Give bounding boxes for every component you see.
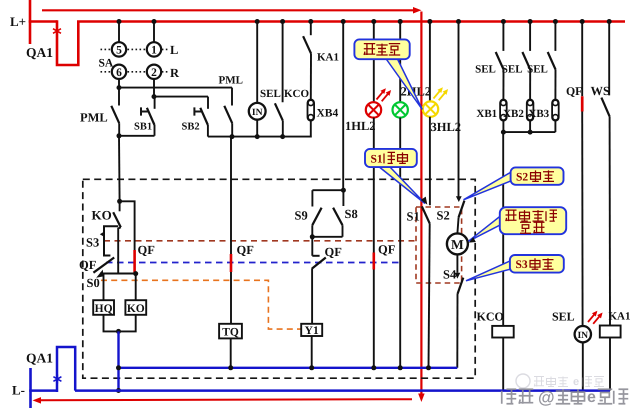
node junction blue rail 2HL2 (398, 365, 403, 370)
svg-text:M: M (451, 237, 464, 252)
selector SA contact 2 (147, 65, 161, 79)
svg-text:L: L (170, 43, 178, 57)
svg-text:XB1: XB1 (476, 108, 497, 120)
node junction coils bottom (116, 329, 121, 334)
wire KA1 to bottom rail (609, 338, 611, 391)
svg-text:SEL: SEL (260, 88, 281, 100)
svg-text:PML: PML (219, 75, 243, 87)
contact SEL (NO, XB2 column) (529, 22, 531, 51)
svg-text:SA: SA (99, 58, 114, 70)
linkage QF dashed line (blue) (106, 262, 400, 264)
svg-text:XB4: XB4 (317, 108, 339, 120)
wire XB bottom rail (503, 131, 555, 133)
wire KO bottom to join (119, 315, 136, 332)
node bus junction IN column (255, 19, 260, 24)
node L+ terminal (29, 0, 32, 44)
wire lead to SA contact 5 (118, 22, 120, 43)
svg-text:IN: IN (577, 330, 588, 341)
callout S1 closed (S1 jie tong) (378, 166, 425, 204)
callout S3 open (S3 duan kai) (466, 261, 511, 281)
watermark ghost (516, 374, 604, 388)
svg-text:XB2: XB2 (503, 108, 524, 120)
dashed enclosure box (control unit) (83, 179, 475, 378)
svg-text:Y1: Y1 (305, 325, 319, 337)
wire HQ coil lead (103, 274, 105, 301)
wire lead below SA-6 (118, 79, 120, 88)
svg-text:SEL: SEL (527, 64, 548, 76)
node bus junction XB3 column (553, 19, 558, 24)
svg-text:PML: PML (80, 111, 108, 125)
node junction S9/S8 bottom (310, 234, 315, 239)
wire 2HL2 column lower (399, 118, 401, 368)
watermark text (502, 388, 629, 407)
node bus junction QF column (580, 19, 585, 24)
node bus junction SEL/KCO contact column (280, 19, 285, 24)
selector SA dotted link row2 (101, 71, 169, 73)
svg-text:KCO: KCO (477, 310, 504, 324)
svg-text:S1: S1 (407, 210, 420, 224)
contact PML right (NO) (231, 88, 233, 106)
node bus junction S2 column (456, 19, 461, 24)
wire L- rail left segment (29, 389, 57, 392)
node junction KO-coil top (133, 271, 138, 276)
connector XB4 (308, 100, 315, 121)
svg-text:KO: KO (92, 208, 112, 223)
node junction IN bottom (255, 134, 260, 139)
contact KO (NO) (119, 201, 121, 211)
node bus junction XB1 column (501, 19, 506, 24)
wire blue rail (coil return) (119, 367, 458, 369)
wire QF closed segment (red) on TQ column (230, 254, 233, 272)
wire QF column upper (581, 22, 583, 97)
svg-text:S0: S0 (87, 276, 100, 290)
svg-text:XB3: XB3 (528, 108, 549, 120)
node bus junction SA-5 (117, 19, 122, 24)
svg-text:e: e (573, 376, 579, 388)
wire SB2/PML-right bottom rail (208, 136, 232, 138)
wire rail from SA-6 to PML right contact (119, 87, 232, 89)
contact KCO (NO) (282, 22, 284, 103)
wire L- rail main (75, 389, 610, 392)
wire IN column lower (256, 119, 258, 137)
svg-text:HQ: HQ (95, 303, 113, 315)
node junction on L- rail (116, 388, 121, 393)
wire 2HL2 column upper (399, 22, 401, 103)
wire parallel-group bottom rail (232, 136, 312, 138)
svg-text:WS: WS (591, 84, 611, 98)
contact S1 (NO) (422, 206, 430, 223)
wire S8 column from bus (342, 22, 344, 191)
svg-text:S8: S8 (345, 207, 358, 221)
connector XB3 (552, 100, 559, 121)
node junction top of KO chain (117, 199, 122, 204)
contact SEL (NO, XB1 column) (502, 22, 504, 51)
wire QF branch (to KO coil) (120, 201, 135, 250)
svg-text:1HL2: 1HL2 (345, 119, 376, 133)
wire lead to SA contact 1 (153, 22, 155, 43)
svg-text:S1: S1 (371, 153, 383, 165)
svg-text:QF: QF (138, 243, 156, 257)
indicator IN (bottom sensor, lit) (575, 326, 591, 342)
wire QF closed segment (red, right column) (581, 96, 584, 111)
node bus junction S8 column (341, 19, 346, 24)
svg-text:2: 2 (151, 67, 157, 79)
svg-text:QF: QF (237, 243, 255, 257)
svg-text:QF: QF (79, 258, 97, 272)
linkage box S1-S2-S4 dashed (brown) (416, 207, 462, 283)
contact QF (NC, Y1 column) (311, 237, 313, 256)
breaker QA1 (bottom, open detour) (57, 347, 75, 392)
coil TQ (219, 324, 242, 339)
switch S2 actuator arrow (456, 196, 462, 202)
wire XB4 to rail (310, 121, 312, 138)
node bus junction 2HL2 (398, 19, 403, 24)
arrow to motor M (469, 237, 476, 242)
svg-text:SB1: SB1 (134, 122, 152, 133)
arrow to contact S1 (421, 197, 428, 205)
switch S3 (closed, with actuator arrow) (104, 226, 118, 255)
linkage S3 dashed line (brown) (104, 240, 416, 242)
svg-text:IN: IN (252, 107, 263, 118)
pushbutton SB1 (NO) (154, 97, 156, 109)
motor M (energy-storage motor) (447, 233, 468, 254)
node bus junction XB2 column (528, 19, 533, 24)
connector XB1 (500, 100, 507, 121)
wire S9/S8 bottom rail (312, 236, 342, 238)
wire S9 branch rail (312, 189, 343, 191)
indicator IN (sensor coil) (249, 103, 266, 120)
svg-text:e: e (587, 389, 596, 406)
wire red top flow line with right arrow (42, 9, 416, 11)
wire S2 column from bus (458, 22, 460, 198)
node L- terminal (29, 368, 32, 408)
contact S2 (NO mirrored, open) (459, 201, 465, 218)
contact S4 (NO mirrored, open) (458, 278, 464, 294)
svg-text:KA1: KA1 (317, 51, 339, 63)
lamp 3HL2 (yellow, lit) (423, 101, 438, 116)
node bus junction KA1 contact column (308, 19, 313, 24)
svg-text:KO: KO (127, 303, 145, 315)
wire column down into box from SB1 junction (118, 136, 121, 202)
svg-text:S2: S2 (437, 209, 450, 223)
wire TQ column (230, 137, 232, 324)
node bus junction 1HL2 (371, 19, 376, 24)
node junction SB1-PML bottom (117, 133, 122, 138)
breaker QA1 (top, open detour) (57, 20, 78, 65)
wire KCO column (502, 132, 504, 326)
connector XB2 (527, 100, 534, 121)
contact QF (NC, on main chain) (93, 258, 114, 273)
svg-text:S9: S9 (295, 209, 308, 223)
wire M to S4 (456, 254, 458, 272)
svg-text:1: 1 (151, 45, 157, 57)
wire 3HL2 to S1 (429, 117, 431, 206)
callout motor-stop (chu neng dian ji ting zhuan) (469, 216, 502, 242)
wire rail from SA-2 to SB2 (154, 96, 208, 98)
svg-text:6: 6 (116, 67, 122, 79)
svg-text:S3: S3 (516, 259, 528, 271)
node junction XB2 bottom (528, 130, 533, 135)
wire blue link coils to L- rail (117, 331, 119, 390)
wire HQ bottom to join (104, 315, 119, 332)
svg-text:SEL: SEL (475, 64, 496, 76)
wire XB2 to rail (529, 121, 531, 132)
svg-text:KA1: KA1 (609, 310, 631, 322)
wire QF branch closed segment (red) (133, 250, 136, 274)
callout yellow-lamp-on (huang deng liang) (386, 58, 423, 110)
coil HQ (93, 300, 114, 315)
node bus junction SA-1 (152, 19, 157, 24)
wire KO coil lead (135, 274, 137, 301)
svg-text:3HL2: 3HL2 (431, 120, 462, 134)
svg-text:5: 5 (116, 45, 122, 57)
svg-text:R: R (170, 66, 180, 80)
wire Y1 to blue rail (311, 336, 313, 368)
wire lead below SA-2 (153, 79, 155, 97)
selector SA dotted link row1 (101, 48, 169, 50)
node junction blue rail S1 (426, 365, 431, 370)
node bus junction 3HL2/S1 (427, 19, 432, 24)
selector SA contact 5 (112, 42, 126, 56)
svg-text:SEL: SEL (552, 310, 575, 324)
node junction blue rail 1HL2 (371, 365, 376, 370)
linkage S0 dashed line to Y1 (orange) (101, 280, 301, 329)
wire IN to bottom rail (582, 342, 584, 391)
wire TQ to blue rail (230, 338, 232, 367)
svg-text:QA1: QA1 (26, 351, 53, 366)
wire 1HL2 column upper (373, 22, 375, 103)
wire QF column lower (581, 112, 583, 327)
node junction blue rails (116, 365, 121, 370)
svg-text:L-: L- (12, 383, 25, 398)
svg-text:TQ: TQ (222, 327, 239, 339)
node junction KCO-contact bottom (280, 134, 285, 139)
wire red vertical flow line (420, 12, 422, 397)
lamp 1HL2 (red, lit) (366, 102, 381, 117)
switch S0 arrow (96, 270, 103, 278)
wire XB1 to rail (502, 121, 504, 132)
svg-text:S4: S4 (443, 268, 457, 282)
wire red bottom flow line with left arrow (39, 399, 413, 400)
node junction at TQ column top (230, 134, 235, 139)
contact S8 (NO) (342, 190, 344, 206)
contact PML left (NO) (118, 88, 120, 106)
contact SEL (NO, XB3 column) (554, 22, 556, 51)
wire KCO to bottom rail (502, 338, 504, 391)
lamp 2HL2 (green) (393, 102, 408, 117)
callout S2 open (S2 duan kai) (464, 172, 513, 200)
svg-text:@: @ (538, 388, 555, 407)
switch S4 actuator arrow (455, 273, 461, 279)
contact KA1 (NO) (310, 22, 312, 36)
wire L+ bus left segment (29, 20, 57, 23)
node junction below SA-2 (152, 94, 157, 99)
wire IN column upper (256, 22, 258, 105)
svg-text:QF: QF (325, 245, 343, 259)
node junction S8 top (341, 188, 346, 193)
wire SB1/PML bottom rail (119, 135, 155, 137)
wire 3HL2 column upper (429, 22, 431, 102)
wire L+ bus main (77, 20, 625, 23)
coil KCO (492, 326, 514, 338)
selector SA contact 1 (147, 42, 161, 56)
node junction below SA-6 (117, 85, 122, 90)
svg-text:SEL: SEL (502, 64, 523, 76)
node junction blue rail TQ (228, 365, 233, 370)
node junction XB1 bottom (501, 130, 506, 135)
svg-text:S3: S3 (86, 236, 99, 250)
contact WS (NO) (608, 22, 610, 96)
selector SA contact 6 (112, 65, 126, 79)
wire 1HL2 column lower (373, 118, 375, 368)
pushbutton SB2 (NO) (207, 97, 209, 109)
svg-text:S2: S2 (516, 171, 528, 183)
coil Y1 (301, 324, 322, 336)
coil KO (125, 300, 146, 315)
coil KA1 (600, 326, 621, 338)
wire QF to Y1 coil (311, 268, 313, 323)
svg-text:KCO: KCO (284, 88, 310, 100)
contact S9 (NO mirrored) (311, 190, 313, 206)
svg-text:QF: QF (378, 243, 396, 257)
node junction blue rail Y1 (309, 365, 314, 370)
svg-text:QF: QF (566, 84, 582, 98)
wire XB3 to rail (554, 121, 556, 132)
node bus junction WS column (607, 19, 612, 24)
svg-text:QA1: QA1 (26, 45, 53, 60)
wire chain bottom rail (100, 273, 136, 275)
svg-text:SB2: SB2 (182, 122, 200, 133)
svg-text:L+: L+ (10, 14, 26, 29)
wire QF closed segment (red) on 1HL2 column (372, 253, 375, 270)
